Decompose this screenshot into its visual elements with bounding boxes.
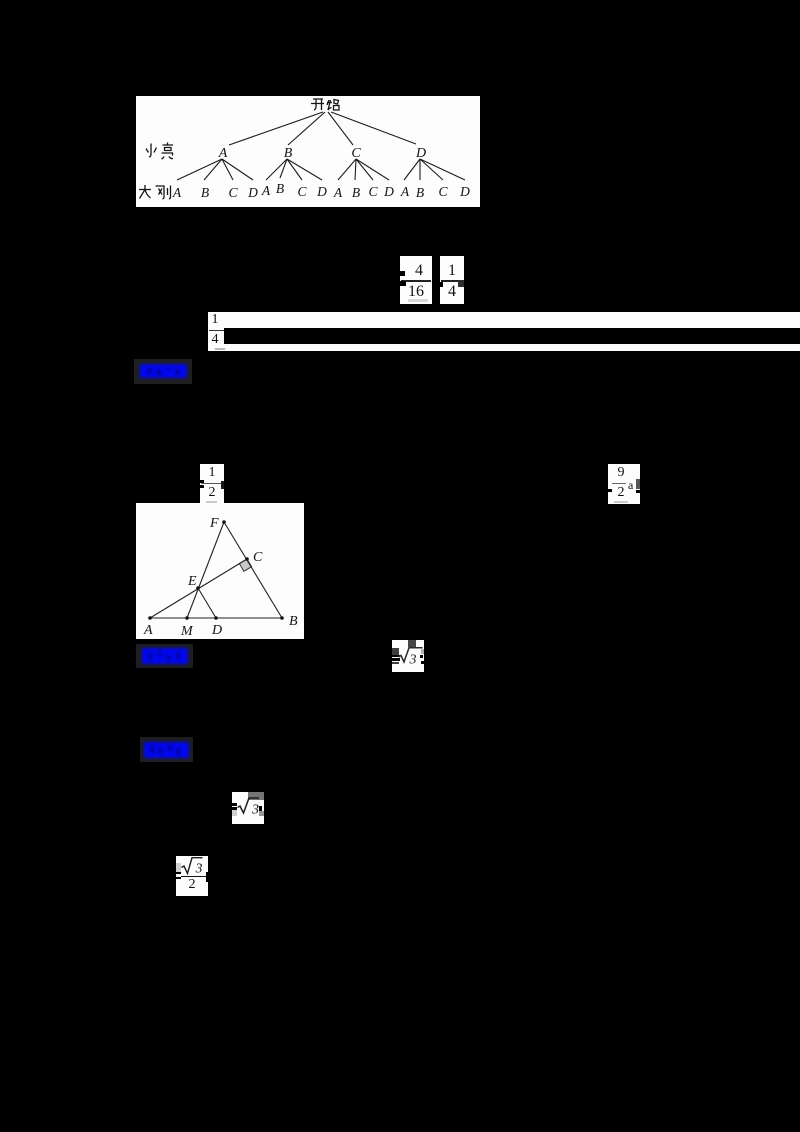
side AB: [150, 617, 282, 619]
svg-text:C: C: [253, 550, 263, 565]
svg-text:D: D: [211, 623, 222, 638]
denominator 4: [440, 283, 464, 301]
svg-text:C: C: [351, 146, 361, 161]
fan under C: [338, 159, 356, 180]
equation 9/2 a box: [608, 464, 640, 504]
svg-text:D: D: [383, 184, 394, 199]
label dagang (row 3 left): [139, 185, 171, 199]
svg-text:A: A: [333, 185, 343, 200]
svg-text:B: B: [201, 185, 209, 200]
main fraction bar: [181, 876, 207, 878]
svg-text:3: 3: [251, 803, 259, 818]
fan under A: [177, 159, 222, 180]
small dark glyph right edge of 1/2 box: [221, 481, 224, 489]
svg-text:D: D: [459, 184, 470, 199]
fan under B: [266, 159, 287, 180]
root-to-level1 lines: [229, 112, 323, 145]
redacted black band: [224, 328, 800, 344]
svg-text:D: D: [415, 146, 426, 161]
svg-text:A: A: [172, 185, 182, 200]
vertex dots: [148, 520, 284, 620]
svg-text:D: D: [316, 184, 327, 199]
label kaishi (start): [311, 99, 339, 110]
svg-text:B: B: [289, 614, 298, 629]
equation 1/4 box: [440, 256, 464, 304]
svg-text:A: A: [261, 183, 271, 198]
svg-text:3: 3: [195, 861, 203, 876]
svg-text:F: F: [209, 516, 219, 531]
fraction bar: [441, 280, 463, 282]
equals mark left: [172, 872, 181, 875]
line FM through E: [187, 522, 224, 618]
numerator 4: [403, 262, 435, 280]
segment ED: [198, 588, 216, 618]
svg-text:C: C: [368, 184, 378, 199]
fan under D: [404, 159, 420, 180]
equation sqrt3 box (first): [392, 640, 424, 672]
svg-text:D: D: [247, 185, 258, 200]
geometry figure image box: [136, 503, 304, 639]
blue label 1: [134, 359, 192, 384]
svg-text:M: M: [180, 624, 194, 639]
svg-text:C: C: [438, 184, 448, 199]
svg-text:A: A: [400, 184, 410, 199]
level2 letters: [172, 181, 470, 200]
white answer strip with redacted black band: [208, 312, 800, 351]
level1 letters: [218, 146, 426, 161]
radical sqrt3 numerator: [182, 858, 203, 874]
line FB through C: [224, 522, 282, 618]
equals mark right of 1/4: [458, 280, 464, 287]
radical sqrt3 second: [238, 798, 260, 813]
right angle mark at C: [239, 559, 251, 571]
equals mark left of 1/2: [195, 480, 204, 483]
label xiaoliang (row 2 left): [146, 143, 173, 160]
fraction bar: [401, 280, 431, 282]
equation sqrt3 box (second): [232, 792, 264, 824]
equation sqrt3/2 box: [176, 856, 208, 896]
denominator 16: [400, 283, 432, 301]
svg-text:A: A: [218, 146, 228, 161]
svg-text:B: B: [276, 181, 284, 196]
svg-text:B: B: [416, 185, 424, 200]
equation 4/16 box: [400, 256, 432, 304]
numerator 1: [440, 262, 464, 280]
blue label 2: [136, 644, 193, 668]
svg-text:B: B: [352, 185, 360, 200]
svg-text:B: B: [284, 146, 293, 161]
equals mark left of 4/16: [397, 271, 405, 276]
point labels: [143, 516, 298, 639]
tree diagram image box: [136, 96, 480, 207]
svg-text:C: C: [297, 184, 307, 199]
svg-text:C: C: [228, 185, 238, 200]
svg-text:A: A: [143, 623, 153, 638]
line AC through E: [150, 559, 247, 618]
radical sqrt3: [399, 648, 423, 662]
fraction 1/4 in strip: [206, 312, 224, 328]
svg-text:3: 3: [409, 653, 417, 668]
equation 1/2 box: [200, 464, 224, 504]
blue label 3: [140, 737, 193, 762]
svg-text:E: E: [187, 574, 197, 589]
